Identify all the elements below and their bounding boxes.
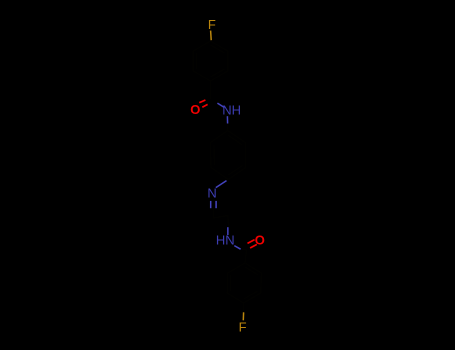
svg-text:N: N	[207, 186, 216, 201]
svg-text:F: F	[208, 17, 216, 32]
svg-text:F: F	[239, 319, 247, 334]
svg-text:O: O	[190, 102, 200, 117]
svg-text:NH: NH	[222, 103, 241, 118]
svg-text:O: O	[255, 233, 265, 248]
svg-text:HN: HN	[216, 232, 235, 247]
